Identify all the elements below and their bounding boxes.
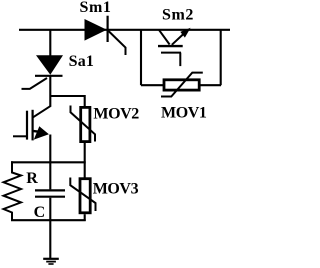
transistor Sm2 (IGBT) — [158, 28, 191, 66]
svg-text:Sm1: Sm1 — [80, 0, 112, 16]
wire loop right vertical — [220, 30, 222, 85]
varistor MOV3 — [70, 178, 95, 213]
wire RC loop bottom rail — [11, 219, 86, 221]
wire MOV1 left lead — [141, 84, 163, 86]
wire MOV3 bottom to bottom rail — [84, 214, 86, 221]
wire MOV2 bottom to MOV3 top — [84, 143, 86, 178]
wire ground stem — [49, 220, 51, 259]
wire from Sa1 cathode down to IGBT collector — [49, 76, 51, 106]
thyristor Sm1 — [85, 16, 126, 55]
ground — [43, 259, 59, 264]
capacitor C — [35, 163, 65, 221]
transistor Q1 (IGBT) — [13, 106, 51, 141]
resistor R — [4, 161, 22, 221]
wire top rail — [19, 29, 230, 31]
svg-text:MOV1: MOV1 — [161, 104, 207, 121]
wire IGBT emitter down to RC rail — [49, 135, 51, 164]
varistor MOV1 — [161, 73, 203, 97]
svg-text:R: R — [26, 170, 38, 187]
wire RC loop top rail — [11, 161, 86, 163]
wire loop left vertical — [140, 30, 142, 85]
wire MOV1 right lead — [201, 84, 222, 86]
varistor MOV2 — [71, 106, 96, 142]
svg-text:MOV3: MOV3 — [93, 180, 139, 197]
wire branch to MOV2 — [50, 96, 84, 106]
svg-text:C: C — [34, 204, 46, 221]
wire left vertical from top rail to Sa1 — [49, 30, 51, 56]
svg-text:MOV2: MOV2 — [93, 105, 139, 122]
svg-text:Sm2: Sm2 — [162, 7, 194, 24]
svg-text:Sa1: Sa1 — [69, 53, 95, 70]
thyristor Sa1 — [22, 55, 64, 89]
